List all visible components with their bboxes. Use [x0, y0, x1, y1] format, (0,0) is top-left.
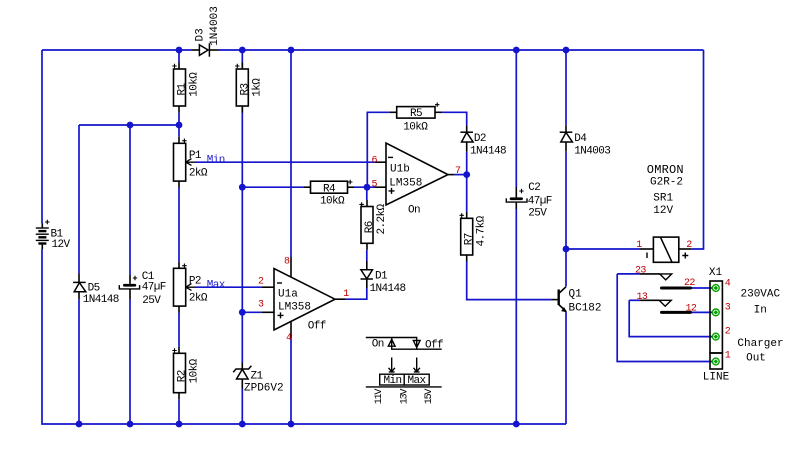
- svg-text:Charger: Charger: [737, 338, 783, 350]
- svg-text:12: 12: [686, 304, 697, 315]
- svg-text:6: 6: [372, 155, 378, 166]
- svg-text:1kΩ: 1kΩ: [252, 78, 264, 97]
- svg-text:Max: Max: [408, 375, 427, 387]
- svg-text:47µF: 47µF: [528, 196, 552, 208]
- svg-text:13: 13: [637, 292, 648, 303]
- svg-text:230VAC: 230VAC: [741, 289, 781, 301]
- svg-text:D2: D2: [474, 133, 486, 145]
- svg-text:1N4148: 1N4148: [83, 294, 119, 306]
- svg-text:LINE: LINE: [703, 372, 730, 384]
- svg-text:13V: 13V: [400, 389, 411, 405]
- svg-text:7: 7: [455, 166, 461, 177]
- svg-text:C2: C2: [528, 182, 540, 194]
- svg-text:12V: 12V: [653, 205, 673, 217]
- svg-text:R2: R2: [177, 370, 189, 382]
- svg-text:8: 8: [284, 257, 290, 268]
- svg-text:Min: Min: [207, 154, 225, 166]
- svg-text:BC182: BC182: [569, 302, 602, 314]
- svg-text:22: 22: [684, 278, 695, 289]
- svg-text:R7: R7: [464, 233, 476, 245]
- svg-text:10kΩ: 10kΩ: [320, 196, 345, 208]
- svg-text:Off: Off: [425, 339, 443, 351]
- svg-text:D4: D4: [574, 133, 587, 145]
- svg-text:X1: X1: [709, 267, 723, 279]
- svg-text:2: 2: [686, 240, 692, 251]
- svg-text:R6: R6: [364, 221, 376, 233]
- svg-text:D1: D1: [375, 270, 388, 282]
- svg-text:4: 4: [286, 333, 292, 344]
- svg-text:ZPD6V2: ZPD6V2: [244, 383, 284, 395]
- svg-text:1: 1: [343, 289, 349, 300]
- svg-text:Z1: Z1: [251, 370, 264, 382]
- svg-text:R5: R5: [410, 108, 422, 120]
- svg-text:1N4148: 1N4148: [370, 283, 406, 295]
- svg-text:On: On: [372, 339, 384, 351]
- svg-text:2.2kΩ: 2.2kΩ: [376, 203, 388, 234]
- svg-text:25V: 25V: [528, 208, 547, 220]
- svg-text:In: In: [754, 304, 767, 316]
- svg-text:Min: Min: [384, 375, 402, 387]
- svg-text:1: 1: [636, 240, 642, 251]
- svg-text:LM358: LM358: [278, 302, 311, 314]
- svg-text:OMRON: OMRON: [647, 163, 684, 177]
- svg-text:U1a: U1a: [278, 289, 298, 301]
- svg-text:LM358: LM358: [389, 178, 422, 190]
- svg-text:Out: Out: [746, 353, 766, 365]
- svg-text:1N4003: 1N4003: [209, 6, 221, 46]
- svg-text:10kΩ: 10kΩ: [189, 358, 201, 383]
- svg-text:25V: 25V: [142, 295, 161, 307]
- svg-text:2kΩ: 2kΩ: [189, 293, 208, 305]
- svg-text:3: 3: [258, 300, 264, 311]
- svg-text:U1b: U1b: [390, 163, 410, 175]
- svg-text:2kΩ: 2kΩ: [189, 168, 208, 180]
- svg-text:1: 1: [725, 351, 731, 362]
- svg-text:2: 2: [258, 276, 264, 287]
- svg-text:11V: 11V: [374, 389, 385, 405]
- svg-text:G2R-2: G2R-2: [650, 176, 683, 188]
- svg-text:15V: 15V: [424, 389, 435, 405]
- svg-text:P2: P2: [189, 275, 201, 287]
- svg-text:D3: D3: [194, 28, 206, 41]
- svg-text:R3: R3: [239, 83, 251, 95]
- svg-text:47µF: 47µF: [142, 282, 166, 294]
- svg-text:10kΩ: 10kΩ: [403, 121, 428, 133]
- svg-text:3: 3: [725, 303, 731, 314]
- svg-text:Q1: Q1: [569, 289, 583, 301]
- svg-text:Off: Off: [308, 320, 326, 332]
- svg-text:23: 23: [635, 266, 646, 277]
- svg-text:R1: R1: [177, 82, 189, 95]
- svg-text:R4: R4: [323, 184, 336, 196]
- svg-text:D5: D5: [88, 282, 100, 294]
- svg-text:P1: P1: [189, 150, 202, 162]
- svg-text:1N4003: 1N4003: [574, 146, 610, 158]
- svg-text:1N4148: 1N4148: [470, 146, 506, 158]
- svg-text:5: 5: [372, 179, 378, 190]
- svg-text:12V: 12V: [52, 239, 71, 251]
- svg-text:Max: Max: [207, 279, 226, 291]
- svg-text:On: On: [408, 204, 420, 216]
- svg-text:4.7kΩ: 4.7kΩ: [476, 215, 488, 246]
- svg-text:2: 2: [725, 327, 731, 338]
- svg-text:SR1: SR1: [653, 192, 673, 204]
- svg-text:10kΩ: 10kΩ: [189, 72, 201, 97]
- svg-text:4: 4: [725, 279, 731, 290]
